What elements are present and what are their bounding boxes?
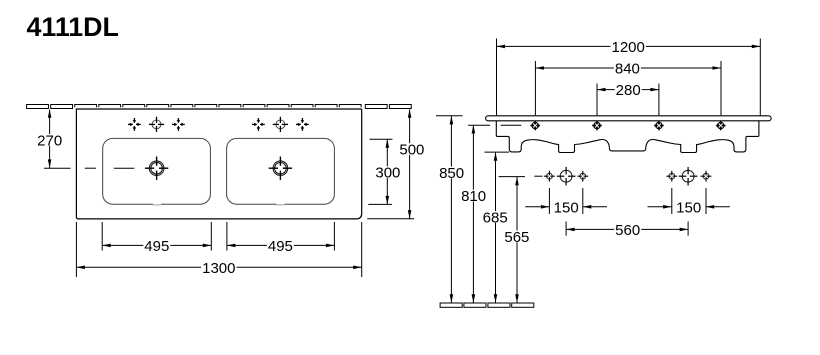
tap hole marks right basin <box>252 117 309 132</box>
dimension 1300 <box>76 260 361 277</box>
tick 565 <box>499 176 525 178</box>
fixing marks front <box>530 121 725 131</box>
svg-text:4111DL: 4111DL <box>27 12 119 42</box>
svg-text:300: 300 <box>375 165 400 182</box>
lower centreline dash <box>534 175 542 177</box>
svg-text:1200: 1200 <box>612 39 645 56</box>
dimension 850 <box>438 116 465 303</box>
washbasin top plate front view <box>486 116 771 121</box>
tap hole marks lower left <box>544 167 588 186</box>
floor line <box>440 303 534 307</box>
svg-text:685: 685 <box>483 209 508 226</box>
svg-text:850: 850 <box>439 165 464 182</box>
dimension 495 right <box>227 238 335 255</box>
dimension 840 <box>535 61 721 116</box>
fixing centreline <box>468 124 521 126</box>
wall line (plan view) <box>27 105 412 109</box>
dimension 280 <box>597 82 659 115</box>
extension lines 495 <box>102 222 334 251</box>
dimension 565 <box>503 177 530 303</box>
right basin overflow notch <box>277 203 285 206</box>
left basin overflow notch <box>153 203 161 206</box>
tap hole marks lower right <box>666 167 711 186</box>
dimension 150 right <box>648 199 730 216</box>
dimension 150 left <box>525 199 607 216</box>
svg-text:495: 495 <box>144 238 169 255</box>
svg-text:495: 495 <box>268 238 293 255</box>
left basin bowl 495 <box>103 138 211 204</box>
dimension 500 <box>367 109 425 219</box>
svg-text:840: 840 <box>615 61 640 78</box>
svg-text:560: 560 <box>615 222 640 239</box>
svg-text:500: 500 <box>399 142 424 159</box>
dimension 495 left <box>102 238 211 255</box>
svg-text:1300: 1300 <box>202 260 235 277</box>
svg-text:810: 810 <box>461 188 486 205</box>
svg-text:150: 150 <box>554 199 579 216</box>
extension lines 1300 <box>76 222 361 277</box>
tap hole marks left basin <box>128 117 185 132</box>
svg-text:280: 280 <box>616 82 641 99</box>
tick 685 <box>485 151 510 153</box>
dimension 300 <box>368 139 401 204</box>
dimension 1200 <box>497 39 761 116</box>
dimension 270 <box>36 109 63 168</box>
svg-text:150: 150 <box>676 199 701 216</box>
dimension 560 <box>566 222 688 239</box>
washbasin body front profile <box>496 121 759 153</box>
right faucet hole <box>269 157 292 180</box>
extension lines 560 <box>566 222 688 236</box>
tick 850 <box>436 115 463 117</box>
left faucet hole <box>145 157 168 180</box>
extension lines 150 left <box>549 188 582 214</box>
right basin bowl 495 <box>227 138 335 204</box>
extension lines 150 right <box>672 188 706 214</box>
washbasin outline plan 1300x500 <box>76 109 361 219</box>
svg-text:565: 565 <box>504 229 529 246</box>
centreline <box>44 167 134 169</box>
title 4111DL <box>27 12 119 42</box>
dimension 810 <box>460 125 487 303</box>
svg-text:270: 270 <box>37 132 62 149</box>
dimension 685 <box>482 152 509 303</box>
